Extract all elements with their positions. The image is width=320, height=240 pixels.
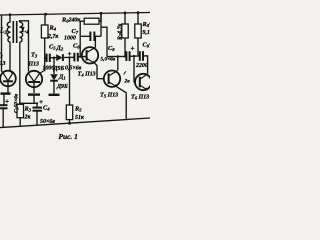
node R5 top junction: [68, 56, 70, 58]
wire detector line: [45, 57, 47, 59]
wire C7 right to corner network: [95, 35, 101, 37]
wire C9 right to T6 collector: [143, 56, 147, 74]
node bus junction at R6: [100, 12, 103, 15]
resistor R7 box: [122, 24, 128, 38]
svg-text:51к: 51к: [75, 115, 85, 121]
transistor T6 collector: [140, 74, 148, 79]
svg-text:+: +: [131, 45, 135, 53]
node bus junction at R8: [137, 11, 140, 14]
resistor R4 box: [41, 25, 48, 38]
wire bus corner to inner corner: [100, 13, 102, 36]
wire top supply bus: [0, 13, 150, 16]
wire T3 bar down to emitter network: [33, 96, 35, 104]
inductor L3 primary coil: [7, 22, 10, 42]
wire R6 left down to T4 base node: [80, 21, 84, 57]
transformer core bars: [12, 21, 14, 43]
transistor T4 base bar: [86, 50, 88, 61]
node D1 top junction: [53, 57, 55, 59]
chassis bar under T3: [28, 93, 40, 95]
svg-text:9,1к: 9,1к: [143, 30, 151, 36]
wire L3 top to bus: [9, 15, 11, 22]
node emitter network junctions: [19, 102, 21, 104]
wire C3 to bottom bus: [2, 109, 4, 128]
transistor T3 electrodes: [29, 71, 45, 82]
wire T5 emitter to bus: [117, 87, 127, 119]
wire between C8 and C9: [130, 55, 139, 57]
svg-text:Д9Б: Д9Б: [53, 66, 65, 72]
node bus junction at L3 top: [9, 13, 12, 16]
chassis bar under D1: [49, 94, 60, 96]
capacitor C8 plates: [125, 51, 127, 61]
svg-text:П13: П13: [28, 62, 40, 68]
transistor T6 emitter with arrow: [140, 85, 148, 90]
transistor T5 circle: [104, 71, 120, 87]
wire R3 to bus: [19, 118, 21, 127]
transistor T5 emitter with arrow: [109, 82, 117, 87]
svg-text:1000: 1000: [64, 36, 76, 42]
wire L4 top to T3 left arm: [20, 21, 29, 72]
svg-text:Рис. 1: Рис. 1: [59, 132, 78, 141]
node bus junction at R4: [44, 13, 47, 16]
wire junction to C4: [36, 103, 38, 107]
svg-text:+: +: [5, 98, 9, 106]
chassis bar under T2: [1, 92, 11, 94]
wire T4 collector up: [94, 36, 96, 47]
svg-text:Т5 П13: Т5 П13: [100, 92, 118, 99]
wire T2 bar to C3: [3, 95, 5, 105]
wire R4 bottom down to T3 right arm: [43, 38, 45, 71]
wire left edge branch down to T2 emitter arm: [2, 15, 4, 74]
node T4 base junction: [79, 56, 81, 58]
wire R8 bottom to C9: [137, 38, 139, 56]
svg-text:2в: 2в: [124, 79, 131, 85]
wire R4 to bus: [44, 14, 46, 25]
resistor R5 box: [66, 105, 72, 120]
capacitor C7 plates: [89, 32, 91, 42]
svg-text:50×6в: 50×6в: [40, 119, 55, 125]
wire T4 emitter to T5 base: [95, 63, 105, 78]
wire L4 bottom down to R3 junction: [19, 42, 21, 103]
node bus junction at R7: [124, 12, 127, 15]
capacitor C3 electrolytic plates: [0, 104, 8, 106]
svg-text:R8*: R8*: [142, 21, 151, 28]
svg-text:С9*: С9*: [143, 42, 151, 49]
node R7-C8 junction: [124, 55, 126, 57]
wire corner over to x107: [101, 27, 107, 56]
wire R7 top: [124, 13, 126, 24]
wire C7 left: [80, 35, 89, 37]
svg-text:R6240к: R6240к: [61, 17, 81, 24]
diode D2: [56, 54, 62, 61]
inductor L4 secondary coil: [20, 22, 23, 42]
resistor R6 box horizontal: [84, 18, 99, 24]
wire D2 to R5 junction: [63, 56, 69, 58]
node R5 bus junction: [68, 122, 71, 125]
transistor T4 collector: [87, 47, 96, 52]
svg-text:+: +: [68, 50, 72, 58]
node T6 base junction: [133, 55, 135, 57]
wire R5 vertical: [69, 57, 71, 105]
transistor T5 collector: [109, 71, 118, 76]
svg-text:5,0×6в: 5,0×6в: [101, 57, 116, 63]
wire L3 bottom to T2 top: [9, 42, 11, 71]
resistor R8 box: [135, 24, 141, 38]
svg-text:Т4 П13: Т4 П13: [78, 71, 96, 78]
wire C4 to bus: [36, 111, 38, 126]
svg-text:П13: П13: [0, 61, 6, 67]
resistor R3 box: [17, 104, 24, 117]
capacitor C9 plates: [139, 51, 141, 61]
transistor T6 circle: [135, 74, 151, 90]
svg-text:2200: 2200: [135, 63, 148, 69]
transistor T6 base bar: [139, 77, 141, 88]
svg-text:R74,7к: R74,7к: [118, 23, 124, 41]
wire bottom common bus: [0, 118, 150, 128]
wire output line left: [107, 55, 126, 57]
diode D1 vertical: [53, 58, 55, 74]
transistor T2 circle: [0, 71, 16, 87]
wire R7 bottom to C8 line: [124, 38, 126, 57]
svg-text:2к: 2к: [24, 115, 32, 121]
svg-text:+: +: [39, 98, 43, 106]
svg-text:Д9Б: Д9Б: [56, 84, 68, 90]
capacitor C6 plates: [73, 53, 75, 62]
transistor T2 electrodes: [4, 71, 13, 81]
svg-text:Т6 П13: Т6 П13: [131, 94, 149, 101]
transistor T4 circle: [82, 47, 98, 63]
tick mark near T5 collector: [124, 71, 127, 74]
svg-text:2,7к: 2,7к: [47, 34, 59, 40]
wire C5 to D1 junction: [50, 57, 56, 59]
transistor T3 circle: [26, 71, 42, 87]
svg-text:С350×6в: С350×6в: [14, 93, 20, 113]
wire junction to C6: [70, 56, 75, 58]
capacitor C5 plates: [46, 54, 48, 62]
transistor T4 emitter with arrow: [87, 58, 95, 63]
capacitor C4 electrolytic plates: [33, 107, 43, 109]
transistor T5 base bar: [108, 73, 110, 84]
wire T5 collector up to C8 line: [117, 56, 119, 70]
wire emitter network horizontal: [20, 102, 37, 104]
wire R8 top: [137, 13, 139, 24]
node C5-R4 junction: [44, 57, 46, 59]
node T5 collector junction: [117, 55, 119, 57]
wire R6 right to bus: [99, 13, 101, 21]
wire C6 to T4 base: [78, 55, 87, 57]
wire R5 to bus: [69, 120, 71, 124]
wire T6 base drop: [134, 56, 136, 82]
